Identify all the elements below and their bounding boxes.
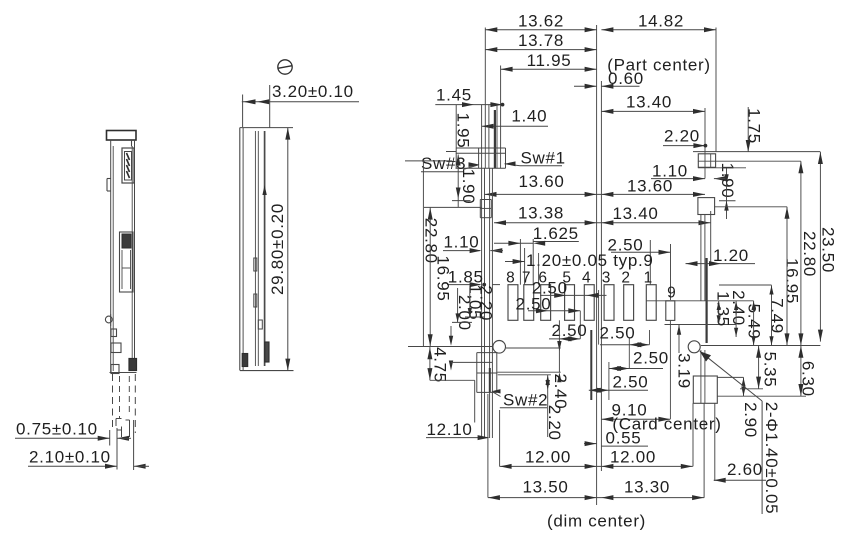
dim 12.00 12.00 <box>500 447 693 469</box>
Sw2 pad block <box>477 353 498 393</box>
pad area ext lines <box>539 253 671 419</box>
dim 13.40 top <box>601 93 705 114</box>
pad right second <box>698 198 715 215</box>
side view A ext line A <box>109 430 111 446</box>
left hole circle <box>493 341 506 354</box>
svg-text:12.00: 12.00 <box>525 447 571 466</box>
svg-text:5.35: 5.35 <box>760 352 779 388</box>
svg-text:7: 7 <box>522 270 531 287</box>
svg-text:1.20: 1.20 <box>713 246 749 265</box>
dim 1.625 <box>494 224 579 285</box>
dim 14.82 <box>601 11 716 32</box>
label Sw#1 <box>505 149 566 168</box>
svg-text:1.10: 1.10 <box>652 162 688 181</box>
svg-text:4.75: 4.75 <box>430 347 449 383</box>
side view A bottom box <box>111 365 119 374</box>
dim 1.10 right <box>651 162 727 182</box>
svg-text:12.00: 12.00 <box>610 447 656 466</box>
svg-text:1: 1 <box>644 270 653 287</box>
view B datum circle symbol <box>278 60 292 74</box>
side view A hidden detail dashed <box>116 376 130 437</box>
ext line 14.82 right <box>715 28 717 153</box>
dim 9.10 <box>601 401 670 422</box>
view B center dark line <box>262 131 266 366</box>
thick line center bottom <box>590 330 592 400</box>
pad 6 <box>538 270 550 321</box>
side view A lower clip <box>120 232 134 292</box>
svg-text:Sw#2: Sw#2 <box>503 391 548 410</box>
svg-text:14.82: 14.82 <box>638 11 684 30</box>
svg-text:13.40: 13.40 <box>626 93 672 112</box>
dim 5.49 <box>745 301 764 346</box>
ext line y324.5 right <box>665 324 737 326</box>
dim 0.75±0.10 <box>15 420 131 441</box>
ext line left top <box>484 28 486 149</box>
lines y372 y374 <box>497 372 560 375</box>
dim 23.50 <box>818 152 838 342</box>
svg-text:1.45: 1.45 <box>436 85 472 104</box>
dim 2.40 mid <box>551 373 570 409</box>
ext line y346 <box>408 346 493 348</box>
dim 12.10 <box>426 420 490 440</box>
svg-text:13.78: 13.78 <box>518 31 564 50</box>
left ext to bottom <box>488 394 500 498</box>
ext line 16.95 top <box>715 206 787 208</box>
side view A ext line B <box>116 428 118 470</box>
dim 2.20 mid <box>545 375 564 441</box>
svg-text:0.75±0.10: 0.75±0.10 <box>16 420 98 439</box>
dim 1.20 typ <box>505 248 654 285</box>
svg-text:2.60: 2.60 <box>727 460 763 479</box>
svg-text:13.62: 13.62 <box>518 11 564 30</box>
dim 22.80 left <box>405 161 452 347</box>
svg-text:13.50: 13.50 <box>522 477 568 496</box>
pad 8 <box>506 270 518 321</box>
dim 2.20 <box>663 127 707 149</box>
svg-text:8: 8 <box>506 270 515 287</box>
side view A ext line C <box>133 420 135 470</box>
svg-text:0.55: 0.55 <box>606 428 642 447</box>
pad 5 <box>562 270 574 321</box>
dim 13.60 13.60 <box>485 172 706 197</box>
label (Part center) <box>607 55 711 74</box>
stub arrow upper <box>449 326 453 346</box>
dim 2.50 b <box>516 294 581 339</box>
pad 4 <box>582 270 594 321</box>
ext line 13.40 right <box>704 108 706 152</box>
line y362 <box>451 361 492 363</box>
svg-text:1.90: 1.90 <box>459 169 478 205</box>
dim 1.10 left <box>443 232 503 253</box>
dim 2.20 left <box>476 285 500 322</box>
dim 2.60 <box>714 460 766 483</box>
label (dim center) <box>547 512 646 531</box>
label (Card center) <box>612 415 721 434</box>
ext line right bottom <box>701 345 821 347</box>
side view A solder tail <box>129 359 137 371</box>
dim 3.19 <box>674 325 693 389</box>
svg-text:13.40: 13.40 <box>612 204 658 223</box>
svg-text:2: 2 <box>621 270 630 287</box>
dim 6.30 <box>798 346 817 397</box>
dim 2.50 a <box>532 279 607 298</box>
dim 13.50 13.30 <box>488 477 704 500</box>
pad 3 <box>602 270 614 321</box>
svg-text:13.38: 13.38 <box>518 203 564 222</box>
svg-text:2.90: 2.90 <box>741 402 760 438</box>
dim 2.50 c <box>549 320 587 382</box>
svg-text:13.30: 13.30 <box>624 477 670 496</box>
Sw pad block top-left <box>446 148 506 168</box>
side view A small box <box>111 329 117 337</box>
label 2-dia <box>762 401 781 514</box>
side view A bottom line <box>110 372 137 374</box>
dim 11.95 <box>501 51 597 72</box>
dim 1.05 <box>465 284 485 320</box>
svg-text:1.75: 1.75 <box>744 108 763 144</box>
dim 1.40 <box>482 107 548 129</box>
dim 1.75 <box>744 107 763 152</box>
pad 9 <box>666 285 677 321</box>
svg-text:23.50: 23.50 <box>818 227 837 273</box>
pad left edge box <box>480 200 491 218</box>
hole leader diagonal <box>700 351 762 401</box>
side view A left hook circle <box>105 314 112 326</box>
svg-text:9: 9 <box>667 285 676 302</box>
dim 2.50 upper right <box>608 236 671 301</box>
part-center vertical line <box>600 81 602 471</box>
stub arrow lower <box>449 361 453 371</box>
right bottom ext lines <box>693 403 715 498</box>
side view A body left edge <box>111 140 114 372</box>
svg-text:2.50: 2.50 <box>633 349 669 368</box>
svg-text:3.19: 3.19 <box>674 353 693 389</box>
dim 2.90 <box>741 377 760 438</box>
svg-text:2.20: 2.20 <box>476 285 495 321</box>
pad top-right <box>698 152 715 179</box>
side view A body right edge <box>132 140 134 359</box>
dim-center vertical line <box>596 25 598 505</box>
svg-text:3.20±0.10: 3.20±0.10 <box>272 82 354 101</box>
dim 1.85 <box>447 267 486 287</box>
view B solder tails <box>242 342 269 367</box>
dim 0.55 <box>584 428 648 447</box>
dim 13.78 <box>485 31 596 52</box>
ext line pad9 top row <box>646 300 754 302</box>
pad 7 <box>522 270 534 321</box>
svg-text:1.10: 1.10 <box>444 232 480 251</box>
dim 2.50 f <box>589 372 649 392</box>
label Sw#2 <box>492 389 549 409</box>
side view A left bump <box>107 179 111 192</box>
svg-text:2.50: 2.50 <box>600 324 636 343</box>
svg-text:7.49: 7.49 <box>768 298 787 334</box>
dim 22.80 right <box>798 161 819 345</box>
svg-text:13.60: 13.60 <box>518 172 564 191</box>
pad column lines top-left <box>489 105 497 168</box>
side view A hidden card dashed left <box>112 374 114 430</box>
dim 2.50 d <box>600 324 650 348</box>
dim 29.80±0.20 <box>268 128 291 371</box>
side view A top cap <box>107 131 137 147</box>
svg-text:22.80: 22.80 <box>800 231 819 277</box>
svg-text:12.10: 12.10 <box>427 420 473 439</box>
dim 2.00 <box>452 288 474 331</box>
svg-text:2.50: 2.50 <box>613 372 649 391</box>
svg-text:4: 4 <box>582 270 591 287</box>
dim 16.95 left <box>424 207 482 346</box>
dim 4.75 <box>427 347 474 423</box>
svg-text:0.60: 0.60 <box>608 69 644 88</box>
dim 13.62 <box>485 11 596 32</box>
svg-text:2.10±0.10: 2.10±0.10 <box>29 448 111 467</box>
side view A upper clip <box>122 148 134 183</box>
right pad column lines <box>701 211 711 343</box>
ext line 11.95 <box>500 66 502 149</box>
pad 2 <box>621 270 633 321</box>
dim 13.38 13.40 <box>494 203 711 225</box>
second edge line right <box>698 160 801 162</box>
line y348 right of circle <box>506 347 561 349</box>
svg-text:Sw#1: Sw#1 <box>521 149 566 168</box>
view B inner rails <box>254 131 262 366</box>
svg-text:16.95: 16.95 <box>433 255 452 301</box>
svg-text:1.625: 1.625 <box>533 224 579 243</box>
dim 2.10±0.10 <box>28 448 149 469</box>
pad right bottom ext <box>717 377 806 396</box>
dim 1.95 <box>454 105 473 149</box>
pad right bottom <box>693 350 717 403</box>
svg-text:2-Φ1.40±0.05: 2-Φ1.40±0.05 <box>762 402 781 515</box>
dim 2.50 e <box>609 349 669 372</box>
dim 0.60 <box>574 69 644 89</box>
dim 1.35 <box>714 291 733 327</box>
top edge line right <box>693 151 820 153</box>
dim 5.35 <box>740 346 779 389</box>
svg-text:1.40: 1.40 <box>511 107 547 126</box>
side view A step box <box>111 343 121 353</box>
right hole circle <box>688 341 700 353</box>
svg-text:2.20: 2.20 <box>664 127 700 146</box>
side view A hidden card dashed right <box>134 374 136 433</box>
svg-text:(dim center): (dim center) <box>547 512 646 531</box>
dim 16.95 right <box>782 207 801 346</box>
svg-text:29.80±0.20: 29.80±0.20 <box>268 203 287 295</box>
dim 7.49 <box>719 285 787 345</box>
svg-text:3: 3 <box>602 270 611 287</box>
dim 1.20 <box>686 246 756 266</box>
svg-text:11.95: 11.95 <box>527 51 572 70</box>
label Sw#3 <box>421 154 480 173</box>
dim 3.20±0.10 <box>242 82 359 127</box>
dim 1.45 <box>435 85 504 107</box>
view B body outline <box>240 128 294 371</box>
svg-text:1.20±0.05 typ.9: 1.20±0.05 typ.9 <box>526 251 654 270</box>
dim 1.90 right <box>698 163 746 219</box>
footprint left edge lines <box>482 105 493 439</box>
dim 2.40 right <box>729 290 748 337</box>
dim 1.90 left <box>452 155 478 208</box>
pad 1 <box>644 270 657 321</box>
